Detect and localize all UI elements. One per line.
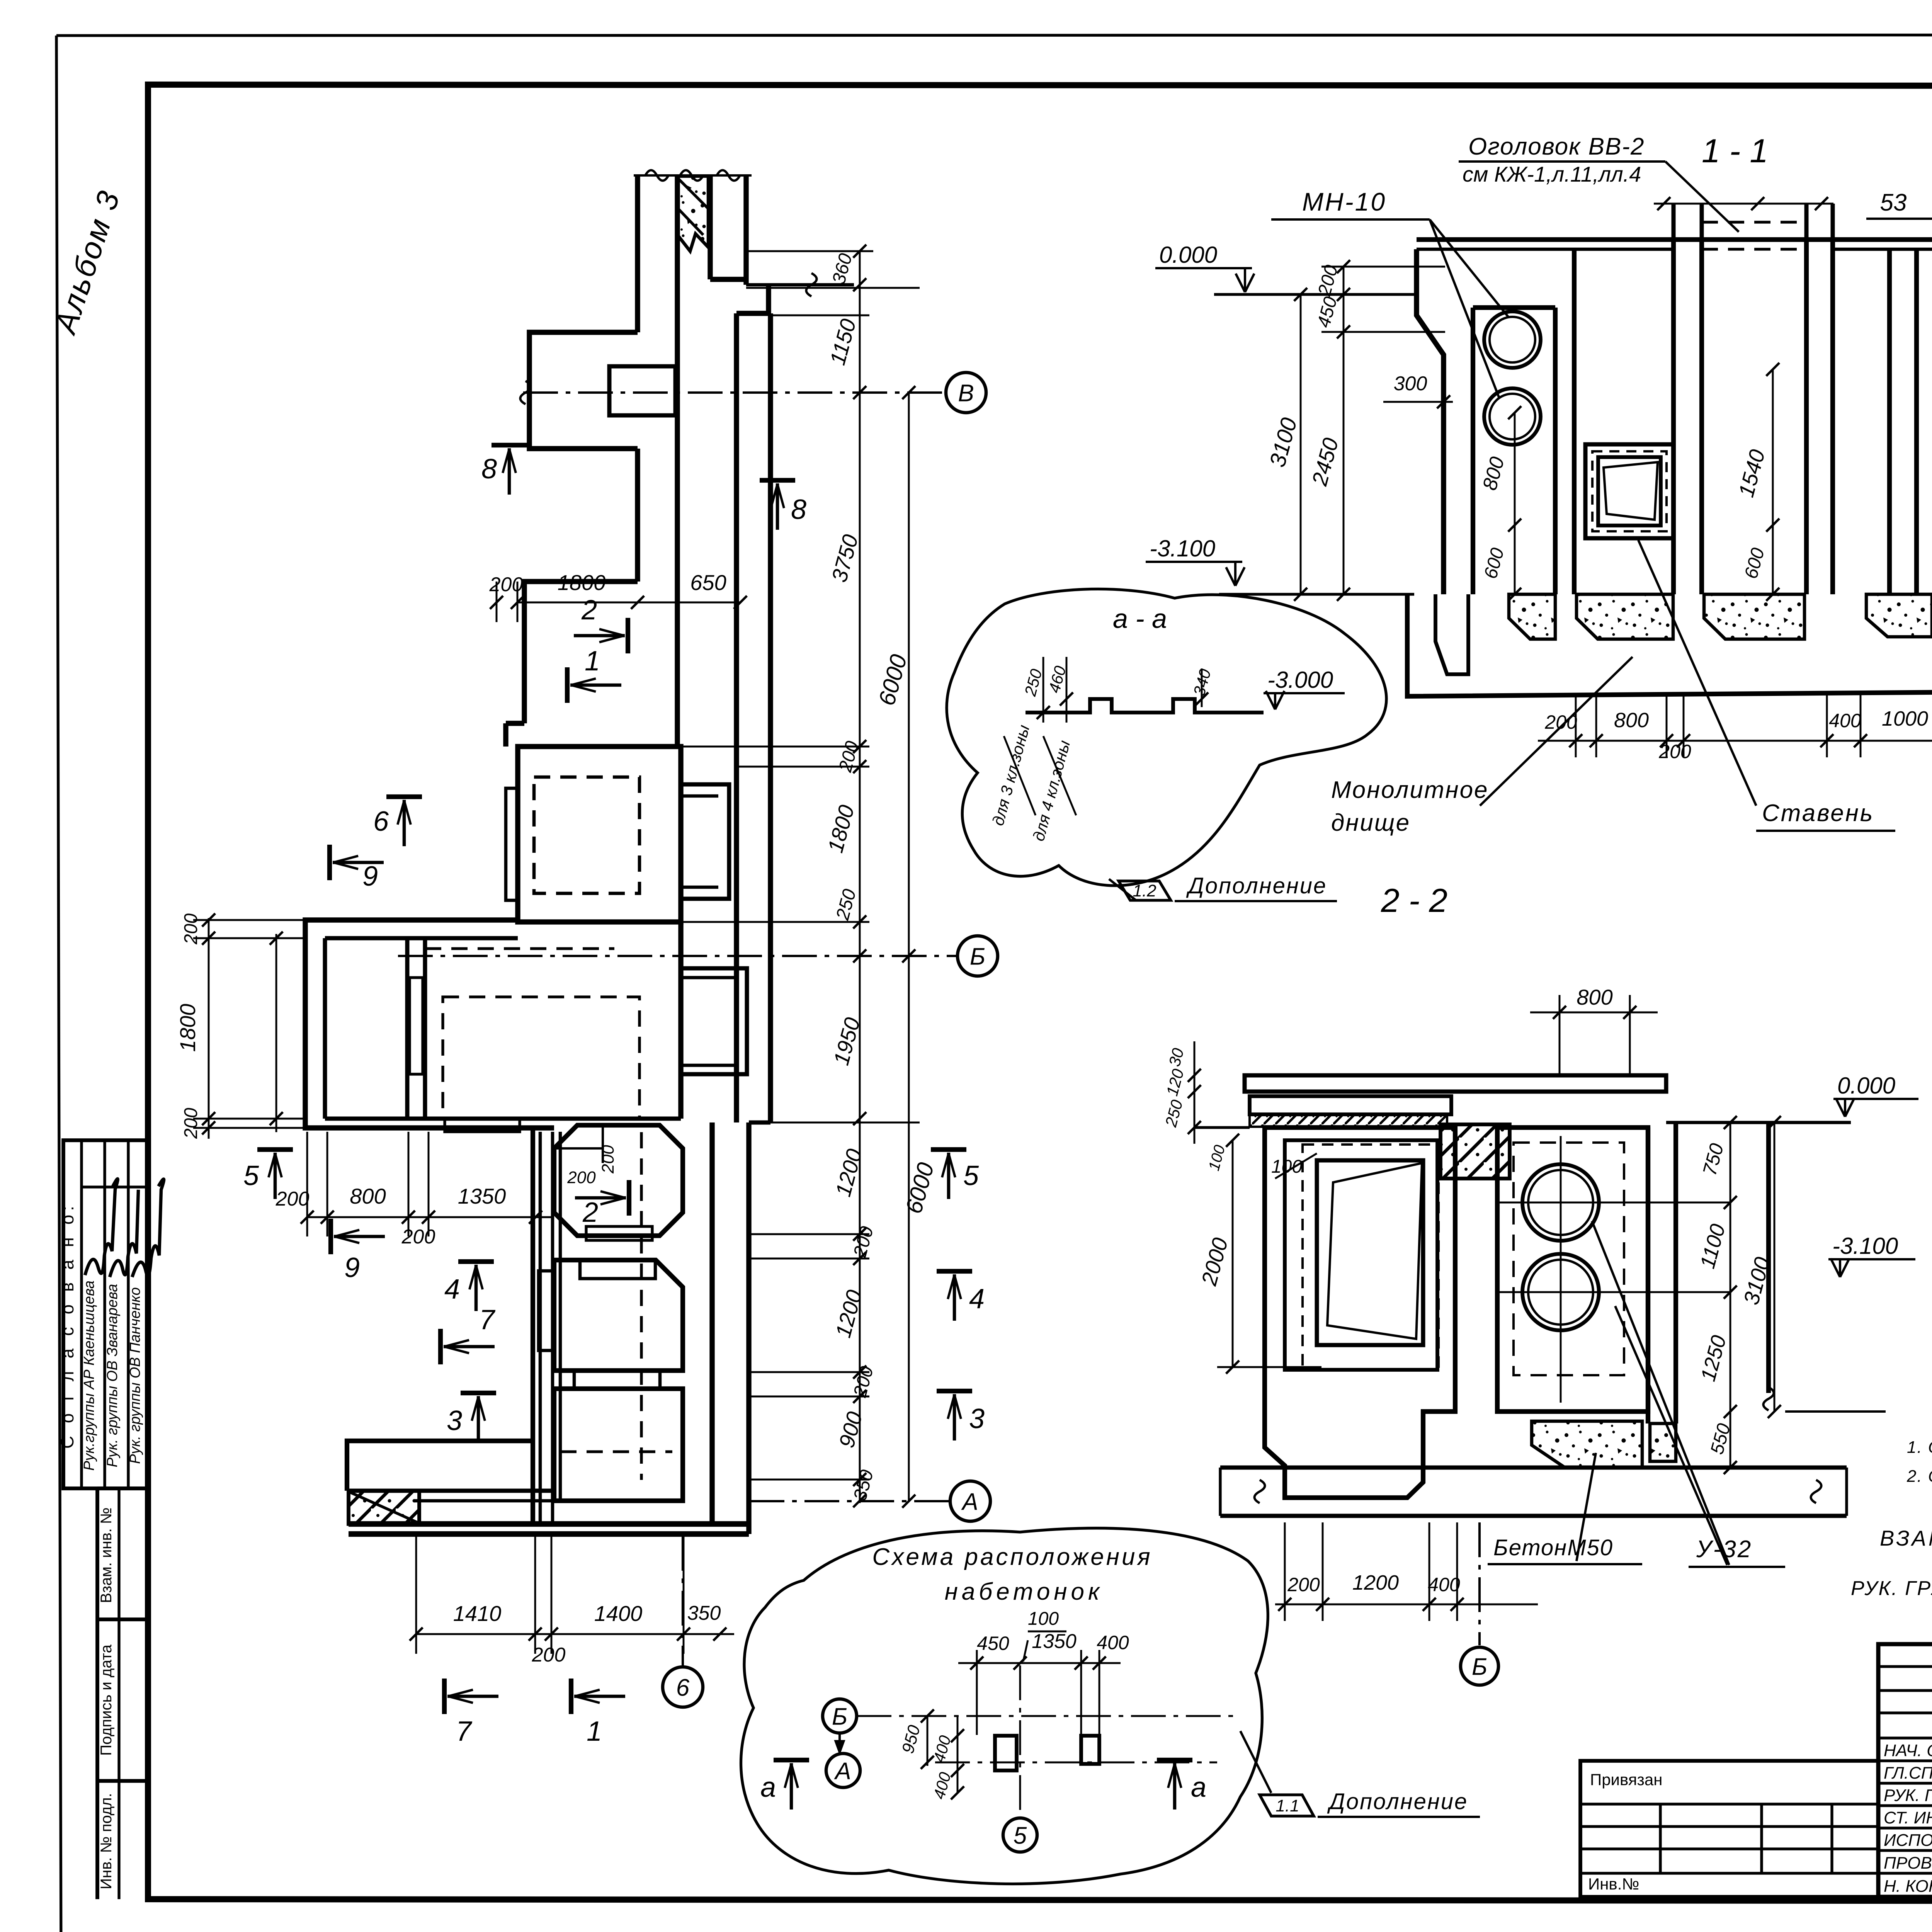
1-1: concrete pits [1509, 594, 1555, 639]
svg-text:Б: Б [970, 943, 985, 970]
svg-text:100: 100 [1271, 1156, 1302, 1177]
svg-text:1400: 1400 [594, 1601, 643, 1626]
1-1: МН-10 leaders [1430, 219, 1509, 318]
2-2: roof slab [1245, 1075, 1666, 1092]
svg-text:53: 53 [1880, 189, 1907, 216]
svg-text:1350: 1350 [458, 1184, 506, 1208]
plan: top-right step walls [710, 277, 746, 282]
plan: octagon inner dim lines [554, 1147, 603, 1150]
plan: axis B dash-dot line [523, 391, 946, 394]
svg-text:Б: Б [1472, 1653, 1487, 1680]
svg-text:Схема расположения: Схема расположения [872, 1544, 1152, 1570]
svg-text:2 - 2: 2 - 2 [1381, 882, 1447, 919]
svg-text:1 - 1: 1 - 1 [1702, 133, 1768, 170]
nabetonki: axis Б dash-dot [857, 1715, 1236, 1717]
plan: wall pair down to room 6 [506, 721, 524, 726]
approval stamp table [63, 1140, 149, 1488]
svg-text:а - а: а - а [1113, 604, 1167, 634]
svg-text:1: 1 [585, 646, 600, 677]
svg-text:С о г л а с о в а н о:: С о г л а с о в а н о: [57, 1202, 77, 1449]
plan: tower top break marks [645, 170, 668, 181]
1-1: shaft walls above slab [1672, 204, 1676, 240]
2-2: left dim 2000 [1232, 1140, 1234, 1367]
nabetonki: second dash-dot axis [935, 1762, 1217, 1764]
svg-text:800: 800 [1577, 985, 1612, 1009]
plan: right section marks 5,4,3 [931, 1147, 966, 1152]
svg-text:1350: 1350 [1032, 1630, 1077, 1653]
2-2: floor 0.000 line [1194, 1126, 1250, 1129]
plan: left dim chain 200/1800/200 [208, 918, 210, 1139]
plan: dashed axis in lower rooms [640, 1132, 643, 1480]
svg-text:Рук.группы АР Каеньшцева: Рук.группы АР Каеньшцева [81, 1281, 97, 1471]
svg-text:1800: 1800 [558, 570, 606, 595]
svg-text:3: 3 [447, 1405, 462, 1436]
svg-text:А: А [961, 1488, 978, 1515]
svg-text:7: 7 [479, 1304, 496, 1335]
svg-text:9: 9 [362, 861, 378, 892]
1-1: shaft walls right pair [1804, 240, 1809, 594]
nabetonki: vertical axis line [1019, 1665, 1021, 1816]
approval signatures [85, 1179, 118, 1275]
svg-text:8: 8 [791, 494, 806, 525]
plan: section marks 5,9,4,7,3 left column [257, 1147, 293, 1152]
svg-text:МН-10: МН-10 [1302, 187, 1386, 216]
svg-text:6: 6 [373, 806, 389, 837]
svg-text:Привязан: Привязан [1590, 1770, 1662, 1789]
2-2: bottom dim 200/1200/400 [1275, 1604, 1538, 1605]
svg-text:-3.000: -3.000 [1267, 667, 1333, 693]
svg-text:1800: 1800 [175, 1004, 200, 1052]
2-2: right dim 3100 [1774, 1122, 1776, 1412]
svg-text:7: 7 [456, 1716, 473, 1747]
svg-text:200: 200 [1287, 1574, 1320, 1595]
plan: room 6 inner formwork dashed [534, 777, 639, 893]
plan: bottom-left corridor [347, 1441, 533, 1491]
svg-text:400: 400 [1097, 1632, 1129, 1653]
svg-text:1000: 1000 [1882, 707, 1928, 730]
2-2: top dim 800 [1559, 995, 1561, 1075]
1-1: dims 800/600 [1514, 413, 1516, 594]
plan: tower left wall lower [635, 449, 640, 582]
1-1: bottom dim chain [1538, 740, 1932, 742]
nabetonki: leader to flag 1.1 [1240, 1731, 1271, 1793]
plan: right wall inner line [768, 313, 773, 1122]
svg-text:2: 2 [581, 595, 597, 626]
2-2: hatched block between [1440, 1124, 1510, 1179]
svg-text:СТ. ИНЖ: СТ. ИНЖ [1884, 1808, 1932, 1827]
1-1: dashed top opening right [1833, 248, 1889, 250]
svg-text:2. Сечения 4-4 ÷ 9-9 см.: 2. Сечения 4-4 ÷ 9-9 см. на КЖ-1, л. 20. [1906, 1467, 1932, 1486]
1-1: shaft walls mid [1671, 240, 1676, 594]
plan: bottom section marks 7 and 1 [442, 1679, 447, 1714]
svg-text:6: 6 [676, 1674, 690, 1701]
svg-text:набетонок: набетонок [945, 1578, 1104, 1605]
svg-text:1200: 1200 [1352, 1571, 1399, 1594]
plan: bottom band walls [349, 1521, 749, 1527]
1-1: stavven leader [1638, 540, 1756, 806]
1-1: wall pair 4890 [1887, 249, 1892, 594]
nabetonki: pad rectangles [995, 1736, 1017, 1770]
1-1: left pier below wall [1435, 594, 1468, 674]
svg-text:650: 650 [690, 570, 726, 595]
svg-text:2: 2 [582, 1197, 598, 1228]
svg-text:ИСПОЛН.: ИСПОЛН. [1884, 1831, 1932, 1850]
plan: section marks 6 and 9 [386, 794, 422, 799]
svg-text:БетонМ50: БетонМ50 [1493, 1535, 1613, 1560]
a-a stepped profile [1026, 699, 1264, 713]
1-1: left vertical dim 3100 [1300, 294, 1302, 594]
nabetonki: left dims 950/400/400 [927, 1716, 929, 1766]
plan: sump octagon 2 [554, 1125, 683, 1236]
plan: section marks 8 [492, 443, 527, 447]
plan: bottom dim 1410/1400/350/200 [416, 1633, 734, 1635]
svg-text:Ставень: Ставень [1762, 800, 1874, 827]
svg-text:ГЛ.СПЕЦ: ГЛ.СПЕЦ [1884, 1764, 1932, 1782]
plan: right dim chain segments [859, 251, 861, 1503]
plan: room 6 left door jamb [506, 788, 518, 900]
plan: middle block divider wall [405, 938, 410, 1119]
svg-text:100: 100 [1028, 1609, 1059, 1629]
signature table [1878, 1644, 1932, 1897]
1-1: dim 300 [1383, 401, 1453, 403]
plan: section mark 2 in octagon [627, 1180, 631, 1216]
plan: outer 6000 chain [908, 393, 910, 1501]
svg-text:-3.100: -3.100 [1832, 1233, 1898, 1259]
svg-text:200: 200 [567, 1168, 596, 1187]
svg-text:1: 1 [587, 1716, 602, 1747]
svg-text:Подпись и дата: Подпись и дата [98, 1644, 115, 1755]
flag 1.1 [1260, 1795, 1314, 1816]
svg-text:1410: 1410 [453, 1601, 502, 1626]
svg-text:Оголовок ВВ-2: Оголовок ВВ-2 [1468, 133, 1645, 160]
1-1: pipe compartment walls [1471, 308, 1475, 594]
svg-text:200: 200 [181, 1108, 201, 1139]
svg-text:400: 400 [1829, 710, 1861, 731]
nabetonki: axis Б circle [823, 1699, 857, 1733]
2-2: bottom slab [1220, 1466, 1847, 1470]
plan: middle room dashed formwork [425, 947, 614, 950]
svg-text:4: 4 [444, 1274, 460, 1305]
plan: lower room [554, 1389, 683, 1501]
svg-text:Дополнение: Дополнение [1186, 873, 1327, 898]
plan: lower-left dim 200/800/1350/200 [307, 1216, 554, 1218]
svg-text:Дополнение: Дополнение [1327, 1789, 1468, 1814]
plan: concrete hatch patch [678, 176, 708, 251]
plan: top 200/1800/650 dim [517, 602, 740, 604]
2-2: left wall block [1265, 1128, 1455, 1498]
svg-text:5: 5 [1014, 1822, 1027, 1849]
svg-text:Рук. группы ОВ Панченко: Рук. группы ОВ Панченко [127, 1287, 143, 1464]
svg-text:200: 200 [181, 913, 201, 945]
plan: tower walls [635, 175, 640, 332]
svg-text:350: 350 [687, 1602, 721, 1624]
svg-text:а: а [1191, 1772, 1206, 1803]
svg-text:0.000: 0.000 [1837, 1073, 1895, 1099]
plan: corridor concrete wedge [349, 1491, 419, 1524]
2-2: window outer [1285, 1140, 1437, 1370]
1-1: top shaft dim line [1654, 203, 1833, 205]
detail a-a revision cloud [947, 589, 1386, 886]
svg-text:200: 200 [401, 1226, 435, 1248]
flag 1.2 [1119, 881, 1171, 900]
svg-text:9: 9 [344, 1252, 360, 1283]
nabetonki: section marks а [774, 1758, 809, 1762]
svg-text:200: 200 [489, 573, 523, 596]
plan: chain extension lines [746, 287, 920, 289]
svg-text:В: В [958, 380, 974, 406]
plan: room 6 right protrusion [681, 784, 729, 899]
plan: left upper protrusion [529, 332, 638, 449]
nabetonki: top dim 450/1350/400 [958, 1662, 1121, 1664]
nabetonki: axis А circle [826, 1753, 860, 1787]
2-2: concrete pits [1532, 1421, 1642, 1468]
privyazan table [1580, 1761, 1878, 1897]
nabetonki: axis circle 5 [1003, 1818, 1037, 1852]
2-2: far right wall [1766, 1122, 1771, 1393]
svg-text:-3.100: -3.100 [1150, 536, 1215, 561]
plan: axis circle 6 below [682, 1536, 684, 1665]
svg-text:1.1: 1.1 [1276, 1796, 1299, 1815]
plan: lower middle room [554, 1260, 683, 1371]
plan: wall jog to room below [524, 582, 638, 723]
svg-text:8: 8 [481, 454, 497, 485]
svg-text:см КЖ-1,л.11,лл.4: см КЖ-1,л.11,лл.4 [1463, 162, 1641, 186]
svg-text:200: 200 [276, 1188, 310, 1210]
svg-text:РУК. ГР.: РУК. ГР. [1884, 1786, 1932, 1805]
1-1: monolithic bottom slab [1407, 594, 1932, 696]
svg-text:Инв.№: Инв.№ [1588, 1875, 1639, 1893]
2-2: axis Б below [1478, 1522, 1481, 1645]
svg-text:200: 200 [599, 1145, 617, 1174]
svg-text:5: 5 [243, 1160, 259, 1191]
plan: section marks 2 and 1 upper [626, 618, 630, 653]
svg-text:НАЧ. ОТД: НАЧ. ОТД [1884, 1741, 1932, 1760]
2-2: right dim chain 750/1100/1250/550 [1730, 1122, 1731, 1468]
svg-text:а: а [760, 1772, 776, 1803]
nabetonki: arrow Б to А [838, 1733, 841, 1751]
2-2: pipe crosshairs [1497, 1202, 1730, 1204]
svg-text:450: 450 [977, 1633, 1009, 1654]
svg-text:800: 800 [1614, 709, 1649, 732]
svg-text:1. Основные примечания см.: 1. Основные примечания см. на КЖ-1, л. 2… [1907, 1438, 1932, 1457]
svg-text:1.2: 1.2 [1133, 881, 1156, 900]
2-2: right block with pipes [1497, 1128, 1648, 1412]
svg-text:Взам. инв. №: Взам. инв. № [98, 1507, 115, 1603]
a-a leader to flag 1.2 [1109, 879, 1136, 900]
plan: middle room right protrusion [681, 968, 747, 1074]
svg-text:ВЗАМЕН ЛИСТА КЖ-19: ВЗАМЕН ЛИСТА КЖ-19 [1880, 1526, 1932, 1550]
svg-text:300: 300 [1394, 372, 1427, 395]
svg-text:3: 3 [969, 1403, 985, 1434]
svg-text:А: А [833, 1758, 851, 1784]
plan: axis circle Б [957, 936, 998, 976]
plan: axis B opening notch [609, 366, 675, 415]
plan: shaft wall pairs [531, 1128, 535, 1524]
svg-text:РУК. ГРУППЫ: РУК. ГРУППЫ [1851, 1577, 1932, 1600]
1-1: left outer wall [1417, 249, 1444, 594]
plan: axis Б dash-dot [398, 955, 957, 957]
svg-text:Б: Б [832, 1703, 847, 1730]
svg-text:Н. КОНТР: Н. КОНТР [1884, 1877, 1932, 1896]
a-a dims [1043, 657, 1044, 723]
svg-text:ПРОВЕР.: ПРОВЕР. [1884, 1854, 1932, 1872]
plan: axis circle B [946, 372, 986, 413]
plan: axis A dash-dot [750, 1500, 950, 1502]
1-1: wall pair right of pipes [1572, 249, 1577, 594]
svg-text:днище: днище [1331, 810, 1410, 836]
nabetonki revision cloud [741, 1528, 1268, 1884]
svg-text:200: 200 [532, 1644, 566, 1666]
svg-text:400: 400 [1428, 1574, 1460, 1595]
1-1: stavven opening frame [1585, 444, 1673, 538]
plan: room 6 outline [518, 747, 681, 922]
1-1: compartment dims 1540/600 [1772, 369, 1774, 594]
1-1: top slab band [1417, 237, 1932, 242]
1-1: left dims 200/450/2450 [1343, 267, 1345, 594]
plan: bottom door sill of middle room [445, 1119, 520, 1132]
svg-text:4: 4 [969, 1284, 985, 1315]
svg-text:200: 200 [1658, 741, 1691, 762]
stamp cells: взам/подпись/инв [95, 1488, 99, 1899]
svg-text:Монолитное: Монолитное [1331, 777, 1489, 803]
svg-text:Инв. № подл.: Инв. № подл. [98, 1793, 115, 1889]
svg-text:200: 200 [1544, 711, 1577, 733]
2-2: right wall strip [1646, 1128, 1650, 1423]
1-1: pipe circles МН-10 [1484, 311, 1541, 368]
svg-text:0.000: 0.000 [1159, 242, 1217, 268]
2-2: left small dims 30/120/250/100 [1194, 1041, 1196, 1144]
svg-text:Рук. группы ОВ Званарева: Рук. группы ОВ Званарева [104, 1284, 121, 1468]
svg-text:800: 800 [350, 1184, 386, 1208]
svg-text:5: 5 [963, 1160, 979, 1191]
plan: middle block outer walls [305, 920, 554, 1128]
